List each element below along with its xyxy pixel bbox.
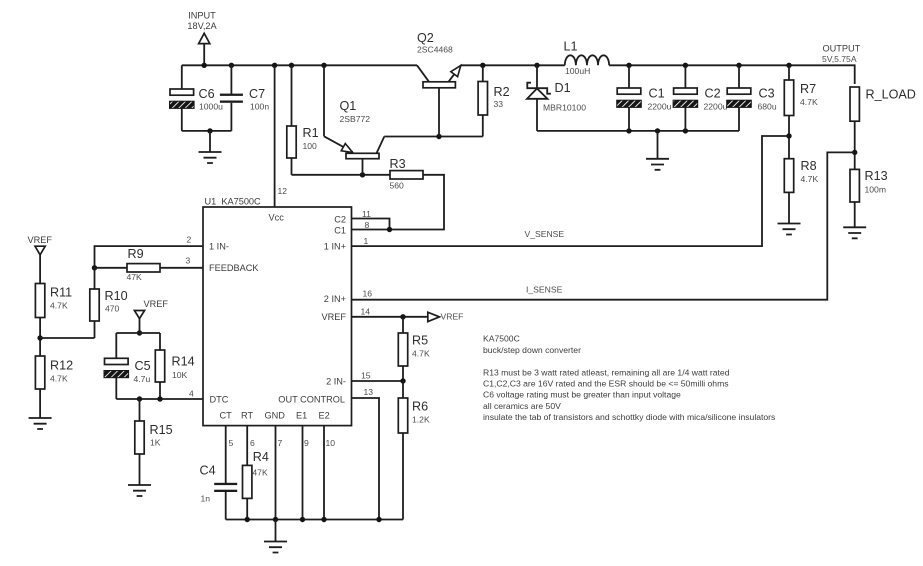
- ground (R8): [778, 224, 801, 235]
- svg-text:RT: RT: [241, 411, 253, 421]
- wire top rail left (input to Q2 collector): [182, 64, 417, 66]
- node input junction: [202, 63, 207, 68]
- transistor Q2 2SC4468 (NPN): [417, 31, 461, 137]
- svg-text:C6 voltage rating must be grea: C6 voltage rating must be greater than i…: [483, 390, 681, 400]
- wire R1 / Q1 base / R3: [292, 174, 391, 176]
- svg-text:D1: D1: [555, 81, 571, 95]
- svg-text:8: 8: [365, 220, 370, 230]
- terminal VREF (soft start): [134, 299, 168, 333]
- ground (R12): [29, 418, 52, 429]
- node ground junction C bank: [655, 128, 660, 133]
- node R_LOAD/R13 I_SENSE junction: [852, 150, 857, 155]
- node R7 junction: [786, 63, 791, 68]
- capacitor C2 2200u: [673, 65, 728, 131]
- resistor R2 33: [478, 65, 510, 136]
- svg-text:4: 4: [189, 388, 194, 398]
- ground (output capacitor bank): [646, 131, 669, 170]
- svg-text:4.7K: 4.7K: [50, 301, 68, 311]
- svg-text:100: 100: [303, 141, 318, 151]
- svg-text:14: 14: [361, 306, 371, 316]
- node C2 junction: [683, 63, 688, 68]
- svg-text:C1,C2,C3 are 16V rated and the: C1,C2,C3 are 16V rated and the ESR shoul…: [483, 379, 729, 389]
- ground (input filter): [199, 131, 222, 163]
- svg-text:1: 1: [364, 236, 369, 246]
- svg-text:4.7K: 4.7K: [50, 373, 68, 383]
- svg-text:R1: R1: [303, 126, 319, 140]
- node ground junction C6/C7: [207, 128, 212, 133]
- diode D1 MBR10100 (schottky): [527, 65, 586, 131]
- wire pin 10 E2 branch: [323, 426, 325, 520]
- capacitor C1 2200u: [617, 65, 672, 131]
- node C3 junction: [736, 63, 741, 68]
- node pin15/R5/R6 junction: [400, 378, 405, 383]
- terminal VREF (left divider): [28, 235, 53, 284]
- svg-text:R10: R10: [105, 289, 128, 303]
- node Q2 base junction: [436, 134, 441, 139]
- capacitor C5 4.7u: [104, 358, 151, 399]
- resistor R5 4.7K: [398, 317, 430, 381]
- svg-text:C4: C4: [200, 464, 216, 478]
- svg-text:100m: 100m: [865, 185, 887, 195]
- svg-text:4.7K: 4.7K: [801, 174, 819, 184]
- svg-text:1 IN-: 1 IN-: [209, 242, 229, 252]
- svg-text:INPUT: INPUT: [188, 11, 216, 21]
- svg-text:I_SENSE: I_SENSE: [526, 284, 563, 294]
- svg-text:R2: R2: [494, 85, 510, 99]
- svg-text:100uH: 100uH: [565, 66, 590, 76]
- resistor R8 4.7K: [784, 159, 818, 224]
- svg-text:1000u: 1000u: [199, 102, 223, 112]
- svg-text:470: 470: [105, 303, 120, 313]
- node E1 junction: [300, 517, 305, 522]
- svg-text:R13: R13: [865, 169, 888, 183]
- svg-text:4.7K: 4.7K: [800, 97, 818, 107]
- node Q1 base junction: [360, 172, 365, 177]
- svg-text:VREF: VREF: [321, 312, 346, 322]
- svg-text:FEEDBACK: FEEDBACK: [209, 263, 259, 273]
- node R7/R8 V_SENSE junction: [786, 133, 791, 138]
- node RT junction: [245, 517, 250, 522]
- capacitor C4 1n: [200, 464, 238, 520]
- node C5/R15 junction: [137, 396, 142, 401]
- node R14 junction: [157, 396, 162, 401]
- svg-text:C3: C3: [759, 87, 775, 101]
- svg-text:V_SENSE: V_SENSE: [525, 229, 565, 239]
- capacitor C3 680u: [727, 65, 777, 131]
- svg-text:15: 15: [361, 370, 371, 380]
- wire divider to R10: [40, 337, 94, 339]
- svg-text:DTC: DTC: [210, 394, 229, 404]
- svg-text:9: 9: [304, 438, 309, 448]
- wire C6/C7 bottom: [182, 130, 232, 132]
- svg-text:R9: R9: [128, 247, 144, 261]
- node R11/R12/R10 junction: [37, 335, 42, 340]
- svg-text:U1 KA7500C: U1 KA7500C: [205, 197, 262, 207]
- svg-text:buck/step down converter: buck/step down converter: [483, 345, 581, 355]
- op-amp U1 KA7500C (PWM controller IC): [203, 197, 352, 426]
- node notes text block: [483, 334, 775, 422]
- node R9/R10 junction: [92, 265, 97, 270]
- wire R3 to pins C2/C1: [352, 175, 445, 230]
- ground (R13): [843, 227, 866, 238]
- svg-text:3: 3: [186, 256, 191, 266]
- svg-text:C1: C1: [649, 87, 665, 101]
- svg-text:1n: 1n: [201, 493, 211, 503]
- svg-text:18V,2A: 18V,2A: [187, 21, 217, 31]
- node Vcc junction: [272, 63, 277, 68]
- svg-text:R12: R12: [50, 359, 73, 373]
- wire pin 15: [352, 380, 404, 382]
- wire pin 6 RT branch: [246, 426, 248, 466]
- node C2 bottom junction: [683, 128, 688, 133]
- resistor R1 100: [287, 65, 319, 175]
- node VREF/C5/R14 junction: [137, 330, 142, 335]
- inductor L1 100uH: [564, 40, 610, 76]
- svg-text:10K: 10K: [172, 370, 188, 380]
- svg-text:680u: 680u: [758, 102, 777, 112]
- svg-text:VREF: VREF: [144, 299, 169, 309]
- svg-text:OUT CONTROL: OUT CONTROL: [278, 394, 345, 404]
- svg-text:5V,5.75A: 5V,5.75A: [822, 54, 857, 64]
- terminal INPUT 18V,2A: [187, 11, 217, 66]
- wire Vcc to pin 12: [274, 65, 276, 207]
- capacitor C6 1000u: [170, 65, 224, 131]
- node C1 junction: [626, 63, 631, 68]
- wire V_SENSE (pin 1 to R7/R8 divider): [352, 136, 790, 246]
- resistor R4 47K: [243, 450, 269, 520]
- node Q1 emitter junction: [321, 63, 326, 68]
- node VREF junction (R5): [400, 314, 405, 319]
- transistor Q1 2SB772 (PNP): [324, 65, 384, 175]
- svg-text:1K: 1K: [150, 438, 161, 448]
- svg-text:insulate the tab of transistor: insulate the tab of transistors and scho…: [483, 412, 775, 422]
- node GND junction: [273, 517, 278, 522]
- svg-text:MBR10100: MBR10100: [543, 103, 586, 113]
- wire pin 14 VREF: [352, 316, 428, 318]
- resistor R3 560: [390, 157, 424, 191]
- svg-text:11: 11: [362, 209, 371, 219]
- wire top rail right (Q2 emitter to L1): [461, 64, 565, 66]
- svg-text:560: 560: [390, 181, 405, 191]
- svg-text:33: 33: [494, 99, 504, 109]
- node D1 junction: [534, 63, 539, 68]
- svg-text:16: 16: [363, 289, 373, 299]
- svg-text:4.7u: 4.7u: [134, 374, 151, 384]
- svg-text:C2: C2: [334, 215, 346, 225]
- svg-text:C7: C7: [249, 87, 265, 101]
- svg-text:R15: R15: [150, 423, 173, 437]
- svg-text:2 IN-: 2 IN-: [326, 376, 346, 386]
- resistor R9 47K: [95, 247, 204, 282]
- resistor R12 4.7K: [35, 356, 73, 418]
- ground (IC GND): [264, 520, 287, 553]
- svg-text:10: 10: [326, 438, 336, 448]
- svg-text:VREF: VREF: [28, 235, 53, 245]
- resistor R15 1K: [135, 399, 173, 485]
- wire top rail output (L1 to R_LOAD): [609, 65, 855, 84]
- wire pin 7 GND branch: [275, 426, 277, 520]
- svg-text:C1: C1: [334, 225, 346, 235]
- svg-text:CT: CT: [220, 411, 233, 421]
- wire pin 5 CT branch: [225, 426, 227, 484]
- node pin13 junction: [376, 517, 381, 522]
- resistor R10 470: [90, 268, 128, 338]
- svg-text:KA7500C: KA7500C: [483, 334, 520, 344]
- svg-text:6: 6: [250, 438, 255, 448]
- wire pin 2 (1 IN-): [95, 246, 204, 268]
- svg-text:R11: R11: [50, 286, 72, 300]
- svg-text:1 IN+: 1 IN+: [324, 242, 346, 252]
- ground (R15): [128, 485, 151, 496]
- svg-text:R6: R6: [412, 400, 428, 414]
- node C7 junction: [229, 63, 234, 68]
- svg-text:47K: 47K: [127, 272, 143, 282]
- capacitor C7 100n: [220, 65, 269, 131]
- svg-text:R4: R4: [253, 450, 269, 464]
- svg-text:R14: R14: [172, 355, 195, 369]
- wire pin 4 DTC: [116, 398, 203, 400]
- svg-text:100n: 100n: [250, 102, 269, 112]
- svg-text:R8: R8: [801, 159, 817, 173]
- wire bottom ground rail: [226, 519, 403, 521]
- svg-text:2: 2: [187, 235, 192, 245]
- wire Q1 collector / Q2 base / R2 bottom: [384, 136, 483, 138]
- svg-text:2SB772: 2SB772: [340, 114, 371, 124]
- svg-text:2SC4468: 2SC4468: [417, 44, 453, 54]
- wire I_SENSE (pin 16 to R13 shunt): [352, 152, 855, 299]
- wire D1 anode / C bank ground net: [537, 130, 739, 132]
- svg-text:2200u: 2200u: [704, 102, 728, 112]
- svg-text:C2: C2: [705, 87, 721, 101]
- svg-text:Q1: Q1: [340, 99, 357, 113]
- svg-text:Q2: Q2: [417, 31, 434, 45]
- svg-text:all ceramics are 50V: all ceramics are 50V: [483, 401, 561, 411]
- resistor R13 100m: [850, 169, 888, 227]
- node R1 junction: [289, 63, 294, 68]
- svg-text:4.7K: 4.7K: [412, 349, 430, 359]
- wire pin 11 jog: [352, 219, 390, 230]
- svg-text:2200u: 2200u: [648, 102, 672, 112]
- svg-text:47K: 47K: [252, 468, 268, 478]
- wire C5/R14 top: [116, 333, 160, 358]
- resistor R11 4.7K: [35, 284, 72, 357]
- terminal VREF (pin 14): [428, 312, 464, 322]
- svg-text:5: 5: [229, 438, 234, 448]
- node C1 bottom junction: [626, 128, 631, 133]
- resistor R_LOAD: [850, 87, 916, 169]
- svg-text:VREF: VREF: [441, 312, 464, 322]
- svg-text:12: 12: [278, 186, 288, 196]
- svg-text:OUTPUT: OUTPUT: [823, 44, 861, 54]
- svg-text:E1: E1: [296, 411, 307, 421]
- resistor R6 1.2K: [398, 381, 430, 520]
- svg-text:7: 7: [278, 438, 283, 448]
- svg-text:R7: R7: [800, 82, 816, 96]
- svg-text:R_LOAD: R_LOAD: [866, 88, 916, 102]
- wire pin 9 E1 branch: [302, 426, 304, 520]
- node E2 junction: [321, 517, 326, 522]
- svg-text:C5: C5: [135, 359, 151, 373]
- svg-text:13: 13: [364, 387, 374, 397]
- node pin8 junction: [387, 227, 392, 232]
- svg-text:GND: GND: [265, 411, 286, 421]
- svg-text:E2: E2: [319, 411, 330, 421]
- svg-text:R3: R3: [390, 157, 406, 171]
- svg-text:R5: R5: [412, 334, 428, 348]
- resistor R7 4.7K: [784, 65, 818, 158]
- svg-text:2 IN+: 2 IN+: [324, 294, 346, 304]
- node R2 junction: [480, 63, 485, 68]
- resistor R14 10K: [155, 350, 194, 399]
- svg-text:C6: C6: [199, 87, 215, 101]
- svg-text:Vcc: Vcc: [269, 213, 285, 223]
- svg-text:R13 must be 3 watt rated atlea: R13 must be 3 watt rated atleast, remain…: [483, 368, 730, 378]
- svg-text:L1: L1: [564, 40, 578, 54]
- wire pin 13 OUT CONTROL down: [352, 398, 380, 520]
- svg-text:1.2K: 1.2K: [412, 415, 430, 425]
